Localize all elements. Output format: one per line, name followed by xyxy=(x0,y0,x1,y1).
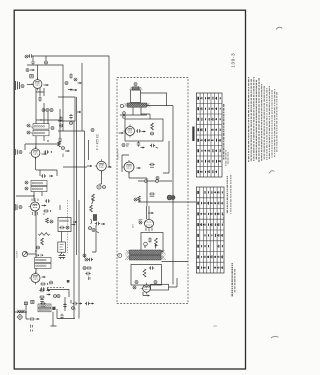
wire bus 2 xyxy=(76,97,78,255)
wire chart pointer 2 xyxy=(162,261,189,263)
power transformer T5 hatched xyxy=(125,250,166,260)
power transformer label T xyxy=(118,254,122,258)
wire bus stub arrows xyxy=(73,111,81,223)
osc section resistor xyxy=(58,141,70,157)
mechanical link dashed xyxy=(67,200,69,253)
page curl mark middle xyxy=(269,171,274,174)
components in rectifier box xyxy=(135,266,157,283)
speaker SP1 magnet xyxy=(17,314,22,320)
wire IF2 screen xyxy=(56,170,58,176)
svg-text:139-3: 139-3 xyxy=(231,53,237,68)
resistor R9 xyxy=(90,205,93,212)
wire mid join xyxy=(146,178,148,206)
pin arrow V4 xyxy=(42,276,46,278)
oscillator coil symbol L2 xyxy=(95,159,112,173)
node circled 19 xyxy=(92,229,99,234)
plate node square xyxy=(50,280,70,284)
components in cathode box xyxy=(144,237,158,247)
speaker SP1 voice coil xyxy=(17,310,25,313)
wire V1 cathode network xyxy=(36,88,44,96)
label circled 31 xyxy=(122,144,129,147)
dashed enclosure record player chassis xyxy=(117,78,188,304)
wire bus 1 xyxy=(73,121,75,319)
wire heater run xyxy=(47,287,69,297)
component cluster mixer grid xyxy=(65,73,82,91)
wire under bar xyxy=(120,93,173,115)
component R10 dark xyxy=(93,215,96,221)
page curl mark top xyxy=(276,27,282,29)
tube V7 output 50C5 xyxy=(144,220,153,232)
tube V5 preamp xyxy=(124,125,146,138)
arrow out of box xyxy=(150,250,155,252)
capacitor C7 cluster xyxy=(44,150,52,153)
IF transformer T1 secondary xyxy=(27,130,49,136)
phono input label xyxy=(118,149,120,160)
tube V2 12BA6 IF amp xyxy=(29,147,40,160)
oscillator coil box L2 xyxy=(58,218,75,232)
T4 terminal box xyxy=(52,307,55,310)
service notes text block xyxy=(249,77,277,162)
resistor R4a xyxy=(46,218,53,223)
arrow V7 grid xyxy=(148,212,154,214)
voltage chart caption xyxy=(223,104,225,160)
electrolytic C18 out xyxy=(29,317,39,331)
copyright line xyxy=(234,269,236,293)
wire T4 secondary return xyxy=(51,309,76,326)
capacitor C9 det xyxy=(43,209,51,212)
resistor R6 xyxy=(37,238,44,249)
wire V1 grid xyxy=(27,84,33,86)
wire T2 down xyxy=(16,192,42,202)
capacitor C4 osc grid xyxy=(38,96,41,101)
wire bus 3 xyxy=(81,63,83,131)
arrow into amp xyxy=(119,132,124,134)
svg-text:VOLUME: VOLUME xyxy=(17,250,19,258)
page curl mark bottom xyxy=(271,336,278,338)
IF transformer T2 secondary xyxy=(25,186,47,191)
trimmer node xyxy=(97,171,106,189)
node AVC left xyxy=(15,88,72,210)
photofact credit line xyxy=(231,263,233,297)
ground at C1 xyxy=(31,56,35,65)
wire bus 5 xyxy=(79,140,89,319)
AGC label node xyxy=(16,149,23,155)
pin arrow V2 plate xyxy=(42,153,47,155)
capacitor C21 xyxy=(149,163,154,168)
wire T1 to V2 xyxy=(25,136,60,150)
tube voltage chart xyxy=(196,93,222,177)
inner sub box xyxy=(163,141,169,173)
capacitor C13 xyxy=(39,289,50,292)
wire IF pointer arrows xyxy=(63,165,92,167)
wire AVC bus xyxy=(27,65,63,131)
tube V7 label xyxy=(133,220,143,229)
phono motor hatched core top xyxy=(129,83,142,91)
tube V1 12BE6 converter xyxy=(31,65,42,90)
electrolytic C17A row xyxy=(71,300,82,311)
voltage chart label bar xyxy=(192,127,194,142)
capacitor C17 osc xyxy=(69,114,72,125)
capacitor C5 at bus xyxy=(59,116,62,127)
wire junction h120 xyxy=(36,119,61,120)
wire V6 left xyxy=(122,155,147,178)
phono motor M1 frame xyxy=(131,90,141,103)
rectifier box xyxy=(131,265,162,286)
node B+ feed xyxy=(45,56,48,64)
arrow above transformer xyxy=(154,245,156,249)
wire bus 4 xyxy=(58,131,85,258)
wire double above V7 xyxy=(147,206,150,219)
fuse F1 hatched xyxy=(167,195,175,200)
wire top B+ bus xyxy=(33,56,109,167)
tube V6 AF amp xyxy=(122,160,141,174)
resistor R8 xyxy=(92,194,95,201)
capacitor C15 cluster xyxy=(39,293,60,303)
AVC cluster C19 xyxy=(83,254,93,280)
capacitor C2 with arrow xyxy=(26,69,35,72)
resistor R11 xyxy=(151,123,154,135)
capacitor C14 B+ filter xyxy=(40,287,48,290)
pin arrow V3 xyxy=(42,204,47,206)
capacitor C10 C11 pair xyxy=(59,254,66,259)
capacitor C16 labels xyxy=(40,302,45,307)
capacitor C20 xyxy=(137,141,145,148)
electrolytic C17B xyxy=(85,302,94,305)
arrow bottom xyxy=(143,292,150,297)
routing box upper xyxy=(141,106,173,186)
tube V8 rectifier xyxy=(133,283,150,295)
T4 label box xyxy=(31,300,34,303)
wire chart pointer 1 xyxy=(134,196,196,202)
node junction row xyxy=(42,109,53,112)
wire screen row xyxy=(36,96,60,144)
svg-text:F = 455 KC: F = 455 KC xyxy=(96,133,100,150)
speaker terminal box xyxy=(24,302,27,313)
node circled 33 xyxy=(156,177,159,180)
IF frequency label F=455KC xyxy=(96,133,100,150)
terminal box bottom xyxy=(151,278,178,290)
capacitor C6 xyxy=(47,137,61,142)
ferrite bar hatched xyxy=(123,103,150,107)
amp inner box xyxy=(125,119,163,141)
wire down volume xyxy=(92,225,96,252)
IF transformer T1 primary xyxy=(27,124,49,130)
stray mark xyxy=(214,325,217,327)
filter choke lead xyxy=(63,297,66,311)
capacitor C1 line bypass xyxy=(25,54,33,58)
wire V2 cathode xyxy=(36,158,58,177)
resistance chart xyxy=(196,187,224,273)
connector pins xyxy=(123,112,126,119)
svg-text:50C5: 50C5 xyxy=(133,224,135,228)
capacitor C19 on line xyxy=(60,314,63,319)
resistor R5 volume feed xyxy=(39,233,50,236)
ratio detector box xyxy=(58,242,66,252)
tube V3 12AV6 det-AF xyxy=(29,198,51,252)
audio coupling transformer T3 xyxy=(35,254,52,268)
IF transformer T2 primary xyxy=(25,181,47,186)
capacitor C8 xyxy=(41,174,53,177)
osc feedback arcs xyxy=(89,199,93,230)
svg-text:PHONO INPUT: PHONO INPUT xyxy=(118,149,120,160)
page number 139-3 xyxy=(231,53,237,68)
nodes on wire 181 xyxy=(138,180,172,183)
resistance chart caption xyxy=(223,175,231,223)
terminal strip B xyxy=(30,75,33,78)
voltage chart footnote xyxy=(226,150,228,166)
loop antenna L1 xyxy=(16,81,25,90)
wire osc loop box xyxy=(58,97,75,121)
component cluster R12 xyxy=(150,144,158,148)
capacitor C22 xyxy=(149,192,154,196)
output transformer T4 primary xyxy=(38,304,51,308)
wire audio bus xyxy=(36,205,62,273)
capacitor C12 xyxy=(40,282,48,285)
wire right bus in box xyxy=(172,185,174,285)
capacitor C18 xyxy=(95,222,105,225)
cathode box V7 xyxy=(141,233,163,252)
volume control R7 xyxy=(17,250,37,258)
tube V4 50C5 output xyxy=(29,272,40,285)
node T1 top xyxy=(51,127,94,132)
wire speaker lead xyxy=(15,302,30,319)
connector circle xyxy=(120,104,123,107)
output transformer T4 secondary xyxy=(38,308,51,312)
pin arrow V1 plate xyxy=(44,84,49,86)
